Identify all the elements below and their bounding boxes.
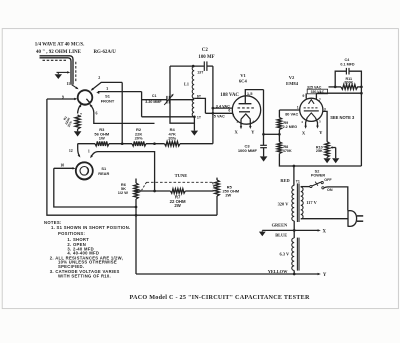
wire node to Y arrow <box>294 273 318 275</box>
svg-text:20%: 20% <box>135 135 143 140</box>
wire node to ground (left) <box>262 229 294 231</box>
T1 6.3V winding <box>292 238 294 270</box>
V2 heater filament <box>307 113 315 118</box>
svg-text:GREEN: GREEN <box>272 222 288 227</box>
boxed label 330 VAC <box>307 89 327 94</box>
wire grid rail vertical <box>212 66 214 144</box>
resistor R4 47K <box>165 141 181 146</box>
svg-text:3: 3 <box>236 120 238 124</box>
resistor R3 56 OHM <box>95 141 109 146</box>
node L1 top <box>192 65 195 68</box>
resistor R11 800K <box>329 86 342 88</box>
svg-text:325 VAC: 325 VAC <box>307 85 322 89</box>
svg-text:9: 9 <box>302 94 304 98</box>
svg-text:1,5: 1,5 <box>247 91 253 96</box>
svg-text:FRONT: FRONT <box>101 99 115 104</box>
wire primary top to S2 <box>300 186 302 188</box>
svg-text:T1: T1 <box>296 180 300 184</box>
V2 target chevron <box>309 100 315 104</box>
ground below R1 <box>74 131 82 136</box>
wire S1 pin3 vertical <box>141 92 143 117</box>
wire S2 to plug <box>324 187 348 211</box>
wire pin10 down and right to R6 bottom <box>54 168 136 207</box>
ground L1 bottom <box>193 117 195 131</box>
svg-text:BLUE: BLUE <box>275 232 287 237</box>
wire yellow rail left to R6 <box>136 273 294 275</box>
wire S1 pin 2 <box>92 82 122 89</box>
V2 grid dashed <box>304 107 319 109</box>
wire yellow node <box>293 270 295 274</box>
wire 80 VAC to V2 grid <box>279 109 299 111</box>
resistor R7 22 OHM (TUNE) <box>136 190 171 192</box>
mechanical gang dashed link <box>147 181 213 183</box>
svg-text:POWER: POWER <box>311 174 326 178</box>
svg-text:320 V: 320 V <box>278 202 290 207</box>
svg-text:3-30 MMF: 3-30 MMF <box>145 100 162 104</box>
svg-text:RED: RED <box>280 178 289 183</box>
svg-text:WITH SETTING OF R10.: WITH SETTING OF R10. <box>58 273 111 278</box>
svg-text:11: 11 <box>66 82 70 86</box>
wire S1 rear pin 1 <box>91 152 155 191</box>
wire S1 rear pin 10 <box>54 167 74 169</box>
svg-text:470K: 470K <box>283 149 292 153</box>
T1 core <box>296 183 298 222</box>
svg-text:1/2 W: 1/2 W <box>118 190 128 195</box>
wire S1 front pin2 vertical <box>121 82 123 143</box>
svg-text:5 VAC: 5 VAC <box>214 115 225 119</box>
wire T1 red lead <box>293 166 295 185</box>
svg-text:6C4: 6C4 <box>239 79 248 84</box>
V1 cathode lead 5 VAC pin 7 <box>205 112 233 114</box>
V1 heater filament <box>241 114 250 119</box>
svg-text:SEE NOTE 3: SEE NOTE 3 <box>330 115 355 120</box>
svg-text:1. S1 SHOWN IN SHORT POSITION.: 1. S1 SHOWN IN SHORT POSITION. <box>51 225 131 230</box>
svg-text:PACO Model C - 25 "IN-CIRCUI: PACO Model C - 25 "IN-CIRCUIT" CAPACITAN… <box>130 295 310 301</box>
wire primary bottom <box>300 218 302 220</box>
svg-text:25K: 25K <box>316 149 323 153</box>
V2 heater pin 4 arrow to X <box>306 118 308 127</box>
resistor R1 220K <box>75 115 80 129</box>
svg-text:117 V: 117 V <box>306 200 317 205</box>
wire coax into S1 front pin 11 <box>72 85 78 89</box>
svg-text:RG-62A/U: RG-62A/U <box>94 50 117 55</box>
svg-text:1: 1 <box>88 150 90 154</box>
T1 secondary 320V winding <box>292 185 294 221</box>
svg-text:0.1 MFD: 0.1 MFD <box>340 63 354 67</box>
tube V2 EM84 envelope <box>300 98 323 121</box>
V1 heater pin 4 arrow to Y <box>249 119 251 126</box>
svg-text:5: 5 <box>319 120 321 124</box>
svg-text:V2: V2 <box>289 75 295 80</box>
svg-text:3: 3 <box>324 107 326 111</box>
trimmer capacitor C1 3-30 MMF <box>142 99 167 101</box>
svg-text:12: 12 <box>69 149 73 153</box>
svg-text:4: 4 <box>301 120 303 124</box>
svg-text:C1: C1 <box>152 94 157 98</box>
ground below C3 <box>260 156 268 161</box>
R10 wiper to ground <box>331 147 335 149</box>
capacitor C3 1000 MMF <box>260 144 267 146</box>
capacitor C4 0.1 MFD <box>335 71 346 87</box>
potentiometer R10 25K <box>325 142 329 158</box>
tap 6T wire <box>194 98 205 113</box>
wire B+ rail down <box>360 93 362 166</box>
svg-text:7: 7 <box>232 114 234 118</box>
svg-text:40 " , 92 OHM LINE: 40 " , 92 OHM LINE <box>36 50 82 55</box>
inductor L1 <box>192 66 194 117</box>
wire row R2-R4 <box>146 143 165 145</box>
switch S1 front <box>78 90 93 105</box>
svg-text:2: 2 <box>98 76 100 80</box>
wire plug bottom to T1 primary <box>301 218 348 220</box>
wire row left end into S1 rear pin 12 <box>78 144 95 157</box>
V1 plate lead <box>245 90 263 104</box>
svg-text:2W: 2W <box>174 203 181 208</box>
ground on coax shield <box>57 71 69 73</box>
V2 plate bar <box>304 110 319 112</box>
svg-text:1000 MMF: 1000 MMF <box>238 148 258 153</box>
wire green/blue node <box>293 221 295 238</box>
svg-text:9: 9 <box>62 95 64 99</box>
svg-text:188 VAC: 188 VAC <box>220 93 239 98</box>
wire top-left drop to ground <box>170 66 194 123</box>
svg-text:ON: ON <box>327 188 333 192</box>
svg-text:20%: 20% <box>168 135 176 140</box>
svg-text:6: 6 <box>96 112 98 116</box>
svg-text:POSITIONS:: POSITIONS: <box>58 231 85 236</box>
wire V1 plate rail down <box>263 90 265 146</box>
svg-text:7: 7 <box>319 98 321 102</box>
V1 grid (dashed) <box>238 107 256 109</box>
svg-text:80 VAC: 80 VAC <box>285 113 298 117</box>
resistor R8 470K <box>278 134 280 142</box>
svg-text:L1: L1 <box>184 82 189 87</box>
tube V1 6C4 envelope <box>232 96 260 124</box>
wire V2 plate to B+ rail <box>316 92 361 94</box>
resistor R2 22K <box>132 141 146 146</box>
svg-text:6: 6 <box>228 108 230 112</box>
wire top rail <box>170 65 204 67</box>
switch S1 rear <box>76 162 93 179</box>
svg-text:1/4 WAVE AT 40 MC/S.: 1/4 WAVE AT 40 MC/S. <box>35 42 85 47</box>
wire pin9 outer loop to bottom rail <box>47 99 217 215</box>
V1 plate bar <box>239 103 252 105</box>
potentiometer R6 5K <box>135 179 137 184</box>
V2 heater pin 5 arrow to Y <box>315 118 317 126</box>
svg-text:YELLOW: YELLOW <box>268 269 288 274</box>
V1 heater pin 3 arrow to X <box>240 119 242 126</box>
T1 6.3V core <box>296 238 298 271</box>
wire branch to R9/R8 junction <box>264 133 280 135</box>
V2 pin 9 lead <box>305 93 307 98</box>
svg-text:X: X <box>322 230 326 235</box>
wire row R3-R2 <box>109 143 132 145</box>
V2 pin 7 lead <box>315 93 317 99</box>
svg-text:6.3 V: 6.3 V <box>279 251 290 256</box>
svg-text:3: 3 <box>106 87 108 91</box>
V1 grid lead 3.4 VAC pin 6 <box>213 107 233 109</box>
svg-text:2.2 MEG: 2.2 MEG <box>283 125 298 129</box>
svg-text:13T: 13T <box>197 70 204 74</box>
svg-text:10: 10 <box>60 164 64 168</box>
node R6 / bottom rail <box>135 214 138 217</box>
svg-text:4: 4 <box>252 120 254 124</box>
wire S1 pin 9 <box>47 98 76 100</box>
wire rail to T1 red <box>294 165 362 167</box>
svg-text:2W: 2W <box>225 192 231 197</box>
node junction pin2/row <box>121 142 124 145</box>
node junction pin6/row <box>153 142 156 145</box>
svg-text:TUNE: TUNE <box>175 173 188 178</box>
node R6 bottom / pin10 wire <box>135 206 138 209</box>
V1 cathode bar <box>239 111 250 113</box>
label R1 220K 20% (slanted) <box>61 115 75 128</box>
svg-text:800K: 800K <box>344 81 353 85</box>
wire node to X arrow <box>294 229 318 231</box>
svg-text:V1: V1 <box>240 73 246 78</box>
capacitor C2 100 MF <box>203 61 205 71</box>
node plate rail / R9R8 branch <box>262 133 265 136</box>
wire S1 pin 7 to R1 <box>78 105 81 114</box>
tap 1T wire from pin3 <box>142 116 195 118</box>
coax transmission line <box>40 56 74 85</box>
svg-text:100 MF: 100 MF <box>198 55 214 60</box>
svg-text:EM84: EM84 <box>286 81 299 86</box>
wire S1 pin 6 <box>90 105 155 124</box>
svg-text:REAR: REAR <box>98 171 109 176</box>
wire S1 pin 3 <box>98 91 142 93</box>
svg-text:Y: Y <box>323 273 327 278</box>
T1 primary 117V winding <box>301 187 303 219</box>
resistor R9 2.2 MEG <box>278 110 280 118</box>
svg-text:1: 1 <box>297 105 299 109</box>
svg-text:1W: 1W <box>99 135 105 140</box>
svg-text:C2: C2 <box>202 48 209 53</box>
potentiometer R5 250 OHM <box>216 178 218 180</box>
AC line plug <box>348 211 357 227</box>
V2 pin 3 lead to R10 <box>323 111 327 141</box>
wire row right to V1 grid rail <box>180 143 213 145</box>
svg-text:OFF: OFF <box>324 178 332 182</box>
